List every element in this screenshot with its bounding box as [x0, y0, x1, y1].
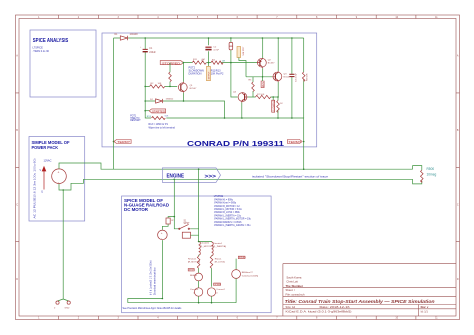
ground symbol GND — [65, 301, 71, 310]
junction bottom rail R6 — [277, 117, 279, 119]
svg-text:SPEED: SPEED — [214, 284, 221, 286]
wire: motor circle bottom to left return — [128, 240, 163, 303]
svg-text:.PARAM R_MOTOR = 12: .PARAM R_MOTOR = 12 — [214, 205, 241, 208]
svg-text:Rloss1: Rloss1 — [215, 258, 222, 260]
current probe arrow I1 — [40, 166, 47, 194]
wire: row 76.8 — [246, 76, 272, 78]
wire: conrad left vertical to track — [113, 38, 115, 169]
transistor Q4 — [233, 92, 248, 119]
svg-text:Vsense2: Vsense2 — [216, 289, 225, 291]
source BEMF1 — [190, 273, 203, 281]
svg-text:50K POT: 50K POT — [243, 46, 245, 56]
wire: bottom rail conrad — [166, 118, 303, 169]
resistor R2 — [150, 83, 165, 88]
svg-text:STARTED: STARTED — [152, 109, 166, 113]
svg-text:1N4148: 1N4148 — [130, 34, 139, 36]
svg-text:DC MOTOR: DC MOTOR — [124, 207, 149, 212]
svg-text:D: D — [16, 278, 18, 281]
svg-text:TERM?: TERM? — [117, 140, 130, 144]
svg-text:DURATION: DURATION — [189, 73, 202, 76]
svg-text:Sheet: /: Sheet: / — [286, 288, 296, 292]
wire: ground drop — [58, 190, 69, 301]
svg-text:SPST: SPST — [184, 223, 191, 225]
svg-text:b 0 d 1 pulse(0 1 5 10n 10n 50: b 0 d 1 pulse(0 1 5 10n 10n 500n) — [151, 260, 153, 295]
svg-text:>>>: >>> — [205, 174, 217, 180]
resistor R3 vertical — [169, 63, 172, 88]
svg-text:.PARAM L_INERTIA_MOTOR = 33u: .PARAM L_INERTIA_MOTOR = 33u — [214, 218, 252, 221]
svg-text:Rmotor1: Rmotor1 — [188, 257, 197, 260]
label speed2 — [214, 283, 222, 286]
svg-text:V=I(Channel)*[K]: V=I(Channel)*[K] — [242, 275, 259, 277]
wire: V1 bottom to lower rail — [59, 179, 413, 190]
svg-text:SPEED: SPEED — [239, 257, 246, 259]
svg-text:LTSPICE: LTSPICE — [214, 196, 224, 198]
junction C2 top rail — [208, 37, 210, 39]
resistor R6 vertical — [277, 97, 284, 118]
label bemf1 — [188, 269, 195, 272]
junction stopped row — [183, 62, 185, 64]
svg-text:R7 10K: R7 10K — [257, 94, 265, 96]
svg-text:R8 56R: R8 56R — [306, 73, 308, 81]
CONRAD box — [102, 33, 317, 148]
svg-text:Linertia1: Linertia1 — [214, 242, 223, 245]
resistor R5 vertical — [249, 77, 255, 97]
wire vsense2 to rail — [211, 296, 213, 303]
note ltspice params — [214, 196, 252, 227]
relay box — [182, 229, 198, 238]
note pot2 — [189, 67, 204, 76]
svg-text:POWER PACK: POWER PACK — [32, 145, 59, 150]
junction C3 top — [291, 37, 293, 39]
junction C2 row62 — [230, 62, 232, 64]
svg-text:South Korea: South Korea — [286, 275, 301, 279]
svg-text:-: - — [161, 236, 162, 240]
svg-text:SPICE ANALYSIS: SPICE ANALYSIS — [33, 38, 69, 44]
junction rail motor return — [162, 298, 164, 300]
junction inductor top — [198, 241, 200, 243]
junction row76 Q2 collector — [262, 76, 264, 78]
svg-text:RESTART: RESTART — [130, 119, 141, 122]
svg-text:STOPPED: STOPPED — [162, 61, 181, 65]
junction rail vsense1 — [198, 302, 200, 304]
svg-text:Title: Conrad Train Stop-Start: Title: Conrad Train Stop-Start Assembly … — [285, 299, 435, 304]
note rotated pulse — [151, 260, 157, 295]
svg-text:D: D — [457, 278, 459, 281]
label torque — [238, 256, 246, 259]
svg-text:CONRAD P/N 199311: CONRAD P/N 199311 — [187, 141, 284, 148]
wire: started stub — [145, 110, 149, 112]
wire: engine bottom drop — [173, 179, 175, 216]
label TERM left — [113, 140, 131, 145]
label STOPPED — [160, 61, 183, 66]
resistor R8 vertical — [302, 38, 308, 118]
inductor Lmotor — [199, 242, 213, 256]
source BEMotorV — [232, 270, 259, 279]
ENGINE global label — [162, 168, 220, 183]
svg-text:220uF: 220uF — [149, 52, 156, 54]
svg-text:Id: 1/1: Id: 1/1 — [421, 309, 429, 313]
resistor Rmotor — [188, 256, 201, 268]
svg-text:1N4002: 1N4002 — [166, 99, 174, 101]
resistor R11 — [192, 59, 206, 64]
source Vsense1 — [190, 288, 203, 296]
svg-text:.PARAM Kt = 909u: .PARAM Kt = 909u — [214, 198, 234, 201]
junction bottom rail Q4 — [241, 117, 243, 119]
title block — [283, 264, 456, 316]
svg-text:File: conrad.sch: File: conrad.sch — [286, 292, 305, 296]
wire rmotor to vbemf — [198, 268, 200, 273]
switch S1 — [174, 217, 190, 230]
svg-text:GND: GND — [65, 308, 70, 310]
note pot1 — [130, 115, 141, 122]
svg-text:10meg: 10meg — [427, 172, 437, 176]
capacitor C2 — [205, 38, 219, 63]
svg-text:C: C — [16, 204, 18, 207]
svg-text:R500: R500 — [427, 167, 435, 171]
junction C2 top — [230, 37, 232, 39]
svg-text:BEMF: BEMF — [189, 270, 195, 272]
junction engine bottom — [174, 179, 176, 181]
transistor Q1 — [178, 63, 197, 101]
motor source circle — [158, 230, 168, 240]
junction C3 bottom — [291, 117, 293, 119]
svg-text:Rev: v: Rev: v — [421, 305, 429, 309]
svg-text:Date: 2018-12-16: Date: 2018-12-16 — [320, 305, 351, 309]
junction rail vsense2 — [211, 302, 213, 304]
svg-text:BC547: BC547 — [190, 88, 197, 90]
junction Q3 top rail — [277, 37, 279, 39]
svg-text:isolated "Slowdown/Stop/Restar: isolated "Slowdown/Stop/Restart" section… — [252, 174, 329, 178]
wire: motor bottom rail — [128, 302, 236, 304]
junction Q1 emitter — [183, 100, 185, 102]
potentiometer POT1 symbol — [237, 46, 245, 58]
junction row97 b — [277, 96, 279, 98]
svg-text:ENGINE: ENGINE — [167, 174, 185, 180]
junction engine top — [198, 168, 200, 170]
wire rloss down — [211, 268, 213, 287]
svg-text:[R_LOSS]: [R_LOSS] — [215, 262, 225, 264]
svg-text:C: C — [457, 204, 459, 207]
label TERM right — [288, 140, 305, 145]
voltage source V1 — [44, 158, 67, 184]
MOTOR note box — [122, 196, 272, 313]
svg-text:12VAC: 12VAC — [44, 158, 52, 162]
svg-text:Wiper ties to left terminal: Wiper ties to left terminal — [149, 126, 176, 129]
svg-text:.PARAM R_LOSS = 380k: .PARAM R_LOSS = 380k — [214, 211, 241, 214]
resistor R4 — [211, 59, 225, 64]
junction bottom rail x224 — [224, 117, 226, 119]
SPICE ANALYSIS note box — [30, 30, 96, 97]
note r13 — [149, 123, 176, 129]
wire: row 97 — [248, 96, 278, 98]
potentiometer R13 row — [147, 116, 169, 120]
svg-text:.PARAM Kemf = 909u: .PARAM Kemf = 909u — [214, 202, 237, 205]
wire: pot1 to row76 — [239, 58, 246, 77]
wire: rser to motor circle — [162, 224, 168, 230]
junction R2 row — [144, 86, 146, 88]
wire torque to bemotor — [235, 259, 237, 270]
wire: lmotor to rmotor — [198, 255, 200, 256]
svg-text:[R_MOTOR]: [R_MOTOR] — [188, 262, 201, 264]
diode D2 — [150, 99, 174, 104]
junction upper rail from conrad right — [303, 168, 305, 170]
wire: V1 top to upper rail — [59, 163, 413, 169]
note r11r13 — [211, 69, 224, 75]
resistor Rloss — [210, 256, 225, 268]
svg-text:Vsense1: Vsense1 — [190, 289, 199, 291]
junction STARTED row — [144, 110, 146, 112]
svg-text:4.7uF: 4.7uF — [213, 50, 219, 52]
resistor R500 — [413, 166, 437, 184]
capacitor C3 — [289, 38, 297, 118]
wire: inertia column top — [199, 241, 212, 244]
svg-text:50K: 50K — [165, 116, 169, 118]
junction Q2 emitter top — [262, 37, 264, 39]
resistor R7 — [256, 94, 271, 99]
junction row97 a — [272, 96, 274, 98]
svg-text:10K: 10K — [158, 83, 162, 85]
capacitor C4 pill — [229, 42, 233, 49]
svg-text:.PARAM RADIUS = 0.0516: .PARAM RADIUS = 0.0516 — [214, 221, 242, 224]
svg-text:The Slumber: The Slumber — [286, 284, 304, 288]
svg-text:AC 12 PULSE(0.6 12 3m 100u 100: AC 12 PULSE(0.6 12 3m 100u 100u 60) — [34, 158, 37, 218]
junction top rail C1 — [144, 37, 146, 39]
wire: engine top drop — [198, 169, 200, 241]
svg-text:[L_MOTOR]: [L_MOTOR] — [201, 246, 213, 248]
svg-text:SLOWING: SLOWING — [272, 100, 275, 111]
label vertical SPEED2 — [272, 97, 276, 112]
junction R11/R4 — [208, 62, 210, 64]
svg-text:.TRAN 0.1s 30: .TRAN 0.1s 30 — [33, 50, 50, 53]
wire: to series resistor — [168, 217, 174, 218]
svg-text:10K Pot P2: 10K Pot P2 — [211, 72, 224, 75]
resistor Rser box style — [166, 218, 175, 224]
wire: D2 row — [145, 101, 224, 118]
svg-text:TERM?: TERM? — [288, 140, 301, 144]
svg-text:.PARAM L_MOTOR = 5.6m: .PARAM L_MOTOR = 5.6m — [214, 208, 242, 211]
label STARTED — [149, 109, 166, 114]
svg-text:KiCad E.D.A. kicad (5.0.1-3-g: KiCad E.D.A. kicad (5.0.1-3-g963ef8bb5) — [286, 309, 352, 313]
svg-text:C3 4.7uF: C3 4.7uF — [296, 72, 298, 82]
inductor Linertia — [212, 242, 227, 256]
svg-text:+: + — [58, 171, 60, 175]
svg-text:RUN: RUN — [262, 82, 265, 87]
potentiometer POT2 — [201, 60, 211, 81]
svg-text:[L_INERTIA]: [L_INERTIA] — [214, 245, 227, 248]
svg-text:Size: A4: Size: A4 — [286, 305, 296, 309]
svg-text:+: + — [161, 231, 163, 235]
svg-text:.PARAM L_INERTIA_GRASS = 33u: .PARAM L_INERTIA_GRASS = 33u — [214, 224, 251, 227]
wire: R2 row — [145, 85, 177, 87]
wire vbemf to vsense1 — [198, 281, 200, 288]
svg-text:BEMF1: BEMF1 — [190, 275, 198, 277]
wire bemotor to rail — [235, 278, 237, 302]
wire: C1 column — [145, 38, 151, 118]
wire: x230 column — [231, 38, 238, 97]
SIMPLE MODEL OF POWER PACK note box — [29, 137, 85, 222]
svg-text:BEMotorV?: BEMotorV? — [242, 271, 254, 274]
svg-text:.PARAM L_INERTIA = 15u: .PARAM L_INERTIA = 15u — [214, 214, 242, 217]
junction D2 row — [144, 100, 146, 102]
junction motor top — [174, 216, 176, 218]
svg-text:1M: 1M — [222, 61, 225, 63]
wire vsense1 to rail — [198, 296, 200, 303]
svg-text:See Precision Microdrives Appl: See Precision Microdrives Appl. Note AB-… — [123, 307, 183, 310]
ground symbol 0 — [54, 301, 59, 310]
svg-text:Download smart-circuit box: Download smart-circuit box — [154, 266, 157, 295]
wire: stopped row — [183, 62, 257, 64]
wire linertia to rloss — [211, 255, 213, 258]
junction on V1 bottom — [62, 189, 64, 191]
wire: conrad top rail — [114, 37, 304, 39]
svg-text:Lmodel1: Lmodel1 — [201, 243, 210, 245]
label vertical SPEED1 — [261, 77, 265, 88]
source Vsense2 — [207, 288, 225, 296]
transistor Q3 — [272, 38, 291, 97]
capacitor C1 — [140, 47, 156, 55]
svg-text:BC557: BC557 — [268, 63, 275, 65]
diode D1 — [115, 34, 139, 40]
transistor Q2 — [257, 38, 275, 77]
